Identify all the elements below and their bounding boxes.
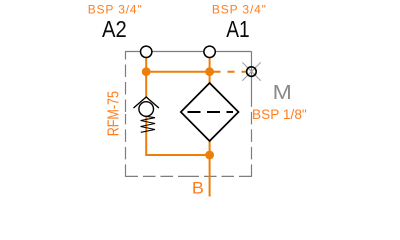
test point M circle: [247, 67, 257, 77]
enclosure left edge (dashed): [125, 52, 127, 115]
svg-text:M: M: [273, 82, 292, 104]
enclosure right edge (solid upper part through test point): [251, 52, 253, 96]
port A1 circle: [204, 46, 215, 57]
wire A1 column to filter top: [209, 58, 211, 84]
check valve V1 ball: [139, 102, 154, 117]
filter element F1 diamond: [181, 83, 239, 141]
svg-text:A1: A1: [226, 16, 249, 42]
svg-text:BSP 3/4": BSP 3/4": [88, 2, 143, 16]
svg-text:BSP 1/8": BSP 1/8": [252, 106, 307, 122]
wire A2 column vertical (orange): [145, 58, 147, 97]
node junction dot left: [142, 67, 151, 76]
check valve V1 spring: [141, 116, 155, 132]
enclosure right edge (dashed lower part): [251, 95, 253, 177]
enclosure top edge (solid): [125, 51, 252, 53]
wire A2-A1 horizontal (orange): [146, 71, 209, 73]
svg-text:B: B: [192, 179, 204, 198]
wire filter bottom to port B: [209, 141, 211, 197]
enclosure bottom edge (dashed): [126, 175, 189, 177]
node junction dot right: [205, 67, 214, 76]
filter element F1 mesh dashed line: [188, 111, 234, 113]
svg-text:A2: A2: [102, 16, 127, 42]
wire bypass bottom elbow: [146, 116, 209, 155]
node junction dot bottom: [205, 151, 214, 160]
svg-text:BSP 3/4": BSP 3/4": [212, 2, 267, 16]
svg-text:RFM-75: RFM-75: [105, 91, 122, 136]
wire dashed pilot line to gauge port M: [214, 71, 247, 73]
port A2 circle: [141, 46, 152, 57]
check valve V1 seat: [134, 97, 159, 108]
test point M diagonal cross: [242, 62, 260, 80]
